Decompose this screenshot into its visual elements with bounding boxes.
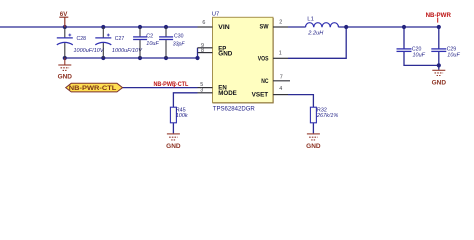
svg-text:3: 3 — [200, 87, 203, 93]
svg-text:MODE: MODE — [218, 90, 237, 97]
svg-text:1000uF/10V: 1000uF/10V — [112, 48, 143, 54]
svg-text:NC: NC — [261, 78, 269, 85]
svg-text:1: 1 — [279, 51, 282, 57]
svg-text:GND: GND — [306, 143, 321, 150]
svg-text:4: 4 — [279, 86, 282, 92]
svg-text:C27: C27 — [115, 36, 125, 42]
svg-text:GND: GND — [432, 79, 447, 86]
svg-text:6V: 6V — [60, 12, 68, 18]
svg-text:C28: C28 — [77, 36, 87, 42]
svg-text:VIN: VIN — [218, 24, 230, 31]
svg-text:C2: C2 — [146, 34, 153, 40]
svg-text:C20: C20 — [412, 46, 422, 52]
svg-text:VOS: VOS — [258, 55, 269, 62]
svg-text:267k/1%: 267k/1% — [316, 113, 338, 119]
svg-text:33pF: 33pF — [173, 41, 185, 47]
svg-text:GND: GND — [166, 143, 181, 150]
svg-text:C30: C30 — [174, 34, 184, 40]
svg-text:TPS62842DGR: TPS62842DGR — [213, 105, 255, 112]
svg-text:C29: C29 — [447, 46, 457, 52]
svg-text:U7: U7 — [212, 11, 220, 17]
svg-text:1000uF/10V: 1000uF/10V — [74, 48, 105, 54]
svg-text:10uF: 10uF — [146, 41, 159, 47]
svg-text:L1: L1 — [307, 16, 314, 22]
svg-text:GND: GND — [58, 73, 73, 80]
svg-text:SW: SW — [260, 24, 269, 31]
svg-text:NB-PWR-CTL: NB-PWR-CTL — [154, 82, 189, 88]
svg-text:8: 8 — [201, 48, 204, 54]
svg-text:10uF: 10uF — [447, 53, 460, 59]
svg-text:GND: GND — [218, 51, 233, 58]
svg-text:NB-PWR: NB-PWR — [426, 13, 452, 19]
svg-text:6: 6 — [202, 20, 205, 26]
svg-text:2.2uH: 2.2uH — [307, 31, 324, 37]
svg-text:10uF: 10uF — [413, 53, 426, 59]
svg-text:NB-PWR-CTL: NB-PWR-CTL — [69, 85, 117, 92]
svg-text:VSET: VSET — [252, 92, 269, 99]
svg-text:100k: 100k — [176, 113, 189, 119]
svg-text:2: 2 — [279, 20, 282, 26]
svg-text:7: 7 — [280, 75, 283, 81]
